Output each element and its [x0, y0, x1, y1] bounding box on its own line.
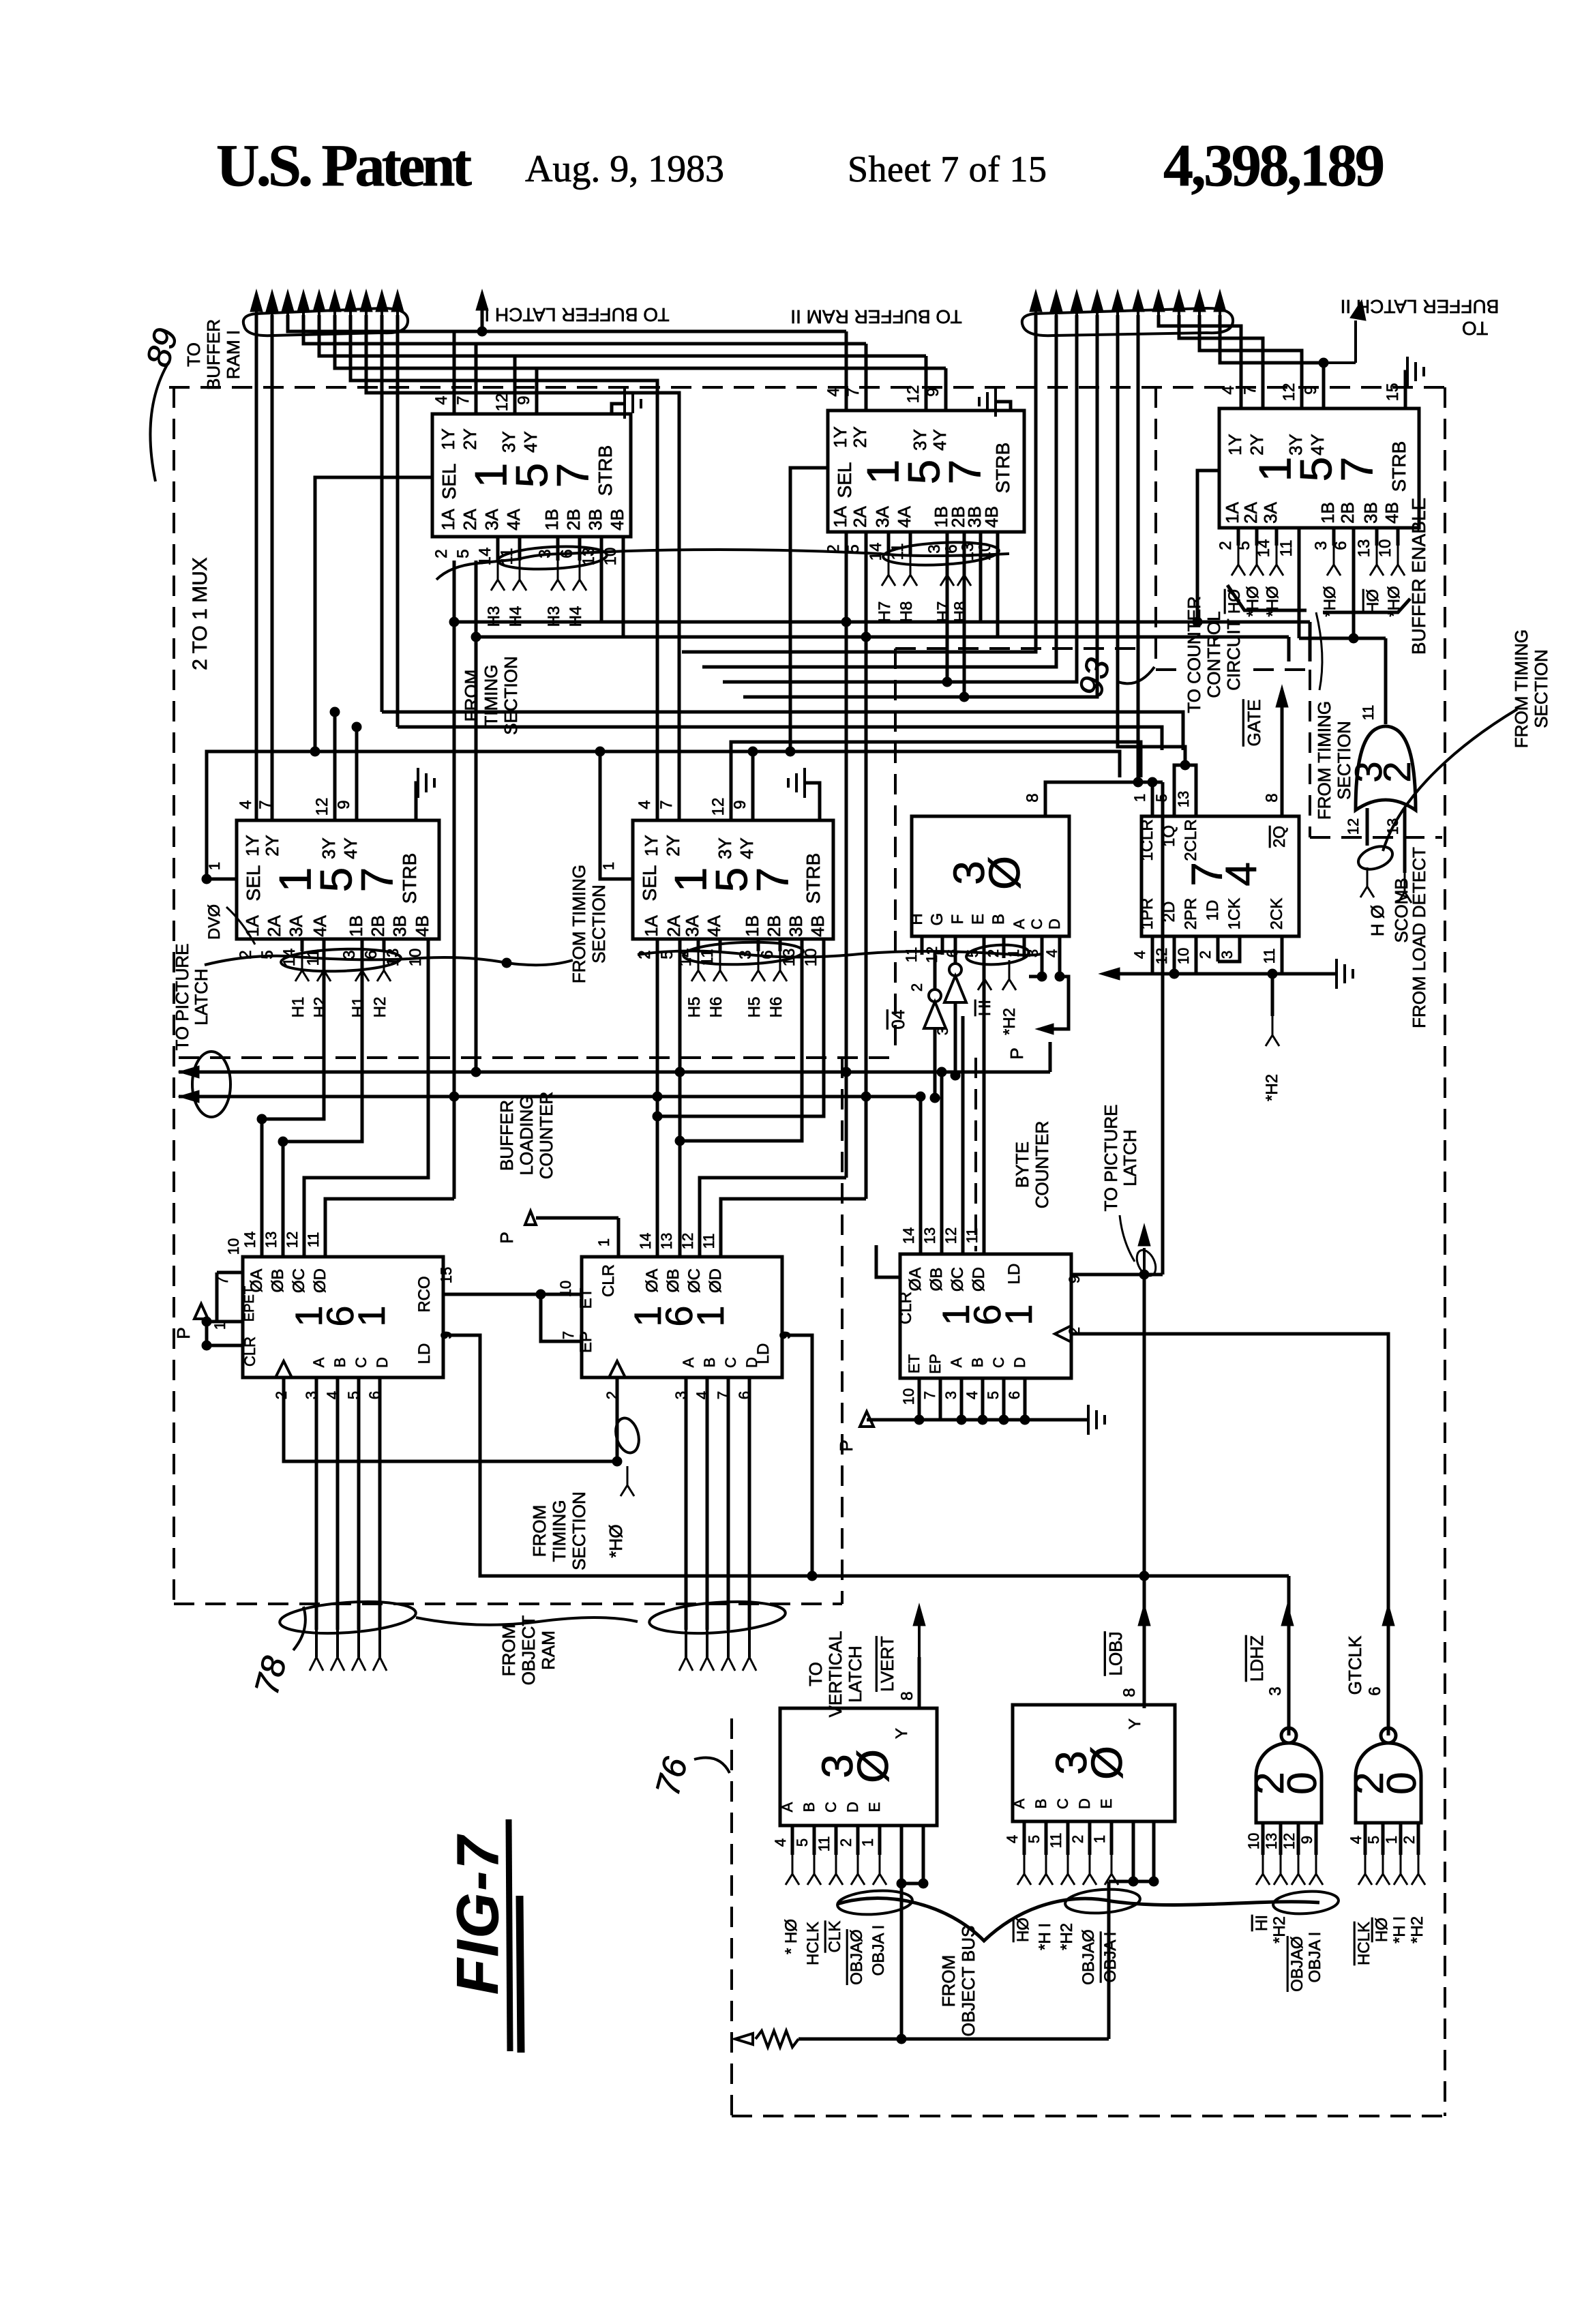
svg-text:EP: EP — [927, 1354, 944, 1373]
svg-text:4A: 4A — [704, 914, 724, 936]
U2 H7/H8 tails — [876, 556, 971, 622]
IC U11 7430 box — [779, 1708, 937, 1826]
svg-text:3: 3 — [1312, 541, 1330, 550]
svg-text:FROM LOAD DETECT: FROM LOAD DETECT — [1409, 847, 1429, 1028]
dot inv2 — [951, 1071, 960, 1080]
HI H2 tails 30a — [976, 960, 1019, 1035]
svg-text:1B: 1B — [541, 509, 562, 531]
arrow left y1428 — [1099, 968, 1120, 980]
U3 bracket leader — [1316, 612, 1322, 690]
svg-text:9: 9 — [515, 396, 533, 404]
wire U10 OC up (30a E) — [961, 1016, 965, 1254]
wire U4 3Y riser — [333, 712, 337, 820]
svg-text:04: 04 — [888, 1010, 908, 1030]
svg-text:VERTICAL: VERTICAL — [825, 1631, 846, 1718]
svg-text:2: 2 — [1401, 1836, 1418, 1844]
ground g7 (U10 bottom net) — [1088, 1405, 1105, 1435]
svg-text:12: 12 — [904, 385, 923, 404]
svg-text:4B: 4B — [412, 915, 432, 937]
svg-text:1CLR: 1CLR — [1138, 819, 1156, 861]
svg-text:3: 3 — [934, 1027, 951, 1035]
svg-text:4: 4 — [1219, 385, 1238, 394]
U11 extra stubs — [897, 1826, 928, 2039]
svg-text:*H2: *H2 — [1000, 1008, 1019, 1035]
svg-text:A: A — [1011, 919, 1028, 929]
svg-text:E: E — [1098, 1799, 1115, 1809]
svg-text:4A: 4A — [503, 508, 524, 530]
wire U1 4Y riser — [535, 368, 539, 414]
svg-text:Y: Y — [893, 1728, 911, 1739]
svg-text:ET: ET — [577, 1287, 595, 1309]
svg-text:1PR: 1PR — [1138, 898, 1156, 930]
svg-text:LD: LD — [1005, 1264, 1024, 1285]
svg-text:H8: H8 — [897, 601, 916, 623]
svg-text:CONTROL: CONTROL — [1204, 611, 1224, 698]
header: sheet — [848, 149, 1047, 190]
svg-text:BUFFER: BUFFER — [496, 1100, 517, 1171]
svg-text:A: A — [779, 1802, 796, 1812]
U9 P input bracket — [496, 1211, 618, 1257]
IC U3 74157 box — [1219, 408, 1419, 528]
svg-text:3B: 3B — [389, 915, 410, 937]
svg-text:U.S. Patent: U.S. Patent — [216, 133, 472, 199]
svg-text:GATE: GATE — [1244, 700, 1264, 747]
svg-text:ØB: ØB — [269, 1269, 287, 1293]
svg-text:OBJECT: OBJECT — [518, 1615, 539, 1686]
label 76 — [648, 1753, 730, 1800]
label 93 — [1071, 654, 1154, 700]
wire U5 4Y riser — [751, 751, 755, 820]
svg-text:FIG-7: FIG-7 — [445, 1834, 511, 1995]
svg-text:9: 9 — [1066, 1275, 1083, 1283]
svg-text:1CK: 1CK — [1225, 898, 1244, 930]
svg-text:1: 1 — [1131, 794, 1148, 802]
svg-text:14: 14 — [900, 1227, 917, 1244]
svg-text:B: B — [701, 1358, 718, 1368]
svg-text:STRB: STRB — [1388, 441, 1409, 492]
svg-text:3A: 3A — [682, 914, 702, 936]
label TO COUNTER CONTROL CIRCUIT — [1184, 596, 1244, 713]
svg-text:1: 1 — [689, 1305, 732, 1326]
svg-text:H7: H7 — [876, 601, 894, 623]
svg-text:2B: 2B — [764, 915, 784, 937]
dot r6 join — [1133, 777, 1143, 787]
svg-text:4: 4 — [1347, 1836, 1364, 1844]
svg-text:5: 5 — [985, 1391, 1002, 1399]
wire LD riser x1705 — [1161, 782, 1165, 1275]
svg-text:2CK: 2CK — [1268, 898, 1286, 930]
dot U4 4Y — [352, 722, 361, 732]
P arrow U10 — [836, 1412, 874, 1452]
U4 bottom pin numbers — [237, 949, 425, 967]
svg-text:4: 4 — [1004, 1835, 1021, 1843]
svg-text:11: 11 — [305, 1232, 322, 1248]
svg-text:2: 2 — [908, 983, 925, 992]
inverter pair 04 — [888, 964, 966, 1035]
svg-text:1Y: 1Y — [242, 835, 263, 856]
svg-text:1D: 1D — [1204, 900, 1222, 921]
svg-text:2: 2 — [1197, 951, 1214, 959]
svg-text:3A: 3A — [872, 505, 893, 527]
svg-text:7: 7 — [1241, 385, 1259, 394]
svg-text:1: 1 — [1091, 1835, 1108, 1843]
svg-text:12: 12 — [493, 393, 511, 412]
svg-text:2Y: 2Y — [1247, 434, 1267, 456]
svg-text:12: 12 — [313, 798, 331, 816]
IC U9 74161 box — [577, 1257, 782, 1377]
svg-text:12: 12 — [1345, 818, 1362, 835]
svg-text:2 TO 1 MUX: 2 TO 1 MUX — [189, 557, 211, 670]
svg-text:H7: H7 — [934, 601, 953, 623]
svg-text:8: 8 — [1120, 1688, 1139, 1697]
svg-text:7: 7 — [351, 867, 402, 893]
object ram tails U8 — [310, 1630, 387, 1671]
dashed box 89 left edge — [173, 387, 175, 1604]
svg-text:2: 2 — [837, 1838, 854, 1847]
svg-text:2A: 2A — [460, 508, 480, 530]
svg-text:E: E — [866, 1802, 883, 1813]
wire r8 (U3 2Y) — [1179, 315, 1263, 408]
svg-text:*H2: *H2 — [1058, 1923, 1076, 1950]
svg-text:3Y: 3Y — [910, 429, 930, 451]
OR gate pin13 lead — [1398, 808, 1412, 903]
dashed vert x1695 (93 jog) — [1154, 387, 1157, 665]
svg-text:Ø: Ø — [848, 1749, 897, 1783]
svg-text:* HØ: * HØ — [782, 1919, 801, 1954]
svg-text:B: B — [1032, 1799, 1049, 1809]
pin label U4 SEL 1 — [206, 862, 223, 870]
wire L4 — [335, 315, 946, 368]
svg-text:3Y: 3Y — [498, 431, 519, 453]
wire r9 (U3 3Y) — [1199, 315, 1302, 408]
label TO BUFFER LATCH I — [484, 304, 669, 325]
svg-text:COUNTER: COUNTER — [1032, 1121, 1052, 1209]
svg-text:2Y: 2Y — [460, 428, 480, 450]
IC U2 74157 box — [828, 411, 1024, 532]
svg-text:OBJECT BUS: OBJECT BUS — [958, 1926, 979, 2037]
svg-text:2B: 2B — [563, 509, 584, 531]
svg-text:9: 9 — [1302, 385, 1320, 394]
svg-text:ØA: ØA — [906, 1268, 925, 1292]
svg-text:B: B — [969, 1358, 986, 1368]
U2 top pin numbers — [824, 385, 942, 404]
U1 bottom pin numbers — [432, 548, 620, 566]
svg-text:1: 1 — [350, 1305, 393, 1326]
U5 bottom pin stubs — [698, 939, 780, 951]
svg-text:13: 13 — [921, 1227, 938, 1244]
svg-text:RCO: RCO — [415, 1276, 434, 1312]
U8 LD wire — [443, 1335, 1289, 1576]
svg-text:E: E — [969, 914, 987, 925]
label FROM TIMING SECTION (outside) — [1511, 629, 1551, 748]
U13 input tails — [1256, 1855, 1323, 1885]
dot U4 SEL — [202, 874, 211, 884]
U3 bottom pin numbers — [1217, 539, 1394, 558]
svg-text:*HØ: *HØ — [1264, 586, 1282, 616]
svg-text:2Q: 2Q — [1270, 826, 1289, 848]
wire U1 SEL feed — [315, 477, 432, 751]
wire U2 1A down — [841, 532, 851, 1178]
svg-text:8: 8 — [1263, 793, 1281, 802]
IC U12 7430 box — [1011, 1705, 1175, 1821]
U3 bracket A — [1227, 585, 1307, 610]
svg-text:CIRCUIT: CIRCUIT — [1223, 619, 1244, 691]
svg-text:FROM: FROM — [529, 1505, 550, 1558]
U8 clock triangle — [275, 1361, 292, 1377]
U9 clock triangle — [609, 1361, 625, 1377]
wire L2 — [303, 315, 866, 344]
U4 H tails — [289, 951, 391, 1017]
svg-text:1A: 1A — [830, 505, 850, 527]
svg-text:ØB: ØB — [664, 1269, 683, 1293]
U5 top pin numbers — [636, 798, 749, 816]
svg-text:C: C — [722, 1357, 739, 1368]
label BUFFER ENABLE — [1408, 498, 1429, 655]
label TO BUFFER RAM I — [183, 319, 243, 390]
wire L5 (U5 1Y) — [350, 315, 657, 820]
svg-text:4B: 4B — [807, 915, 828, 937]
bundle rope U9 — [634, 1598, 786, 1637]
to-buffer-latch-II arrow — [1319, 300, 1366, 368]
svg-text:5: 5 — [794, 1838, 811, 1847]
U11 input labels — [782, 1919, 888, 1985]
svg-text:2PR: 2PR — [1182, 898, 1200, 930]
svg-text:2: 2 — [1069, 1835, 1086, 1843]
svg-text:11: 11 — [964, 1228, 981, 1244]
svg-text:HI: HI — [1253, 1915, 1271, 1931]
svg-text:13: 13 — [1175, 791, 1192, 807]
wire a10 shaft (M8 feed) — [396, 315, 400, 727]
svg-text:3A: 3A — [1260, 501, 1281, 523]
svg-text:B: B — [801, 1802, 818, 1813]
inverter wires — [935, 936, 955, 1098]
U10 pin numbers — [900, 1227, 1083, 1405]
GATE arrow — [1276, 685, 1288, 707]
svg-text:1A: 1A — [438, 508, 458, 530]
wire L1 — [288, 315, 846, 331]
wire M9 (U5 3Y) — [731, 742, 1141, 820]
svg-text:A: A — [310, 1357, 327, 1367]
svg-text:H6: H6 — [767, 997, 786, 1018]
svg-text:1A: 1A — [641, 914, 661, 936]
svg-text:H6: H6 — [707, 997, 726, 1018]
svg-text:H1: H1 — [349, 997, 368, 1018]
svg-text:8: 8 — [1024, 793, 1042, 802]
ground g2 (U2 STRB) — [979, 387, 1011, 417]
dashed 93 right edge — [1309, 670, 1311, 837]
svg-text:4Y: 4Y — [736, 837, 757, 859]
svg-text:3B: 3B — [786, 915, 806, 937]
P arrow mid — [1006, 1024, 1054, 1060]
svg-text:TO: TO — [805, 1662, 826, 1686]
U8 pin numbers — [211, 1232, 455, 1399]
svg-text:7: 7 — [921, 1391, 938, 1399]
svg-text:HØ: HØ — [1373, 1918, 1391, 1942]
dashed box 93 top edge — [895, 647, 1141, 650]
svg-text:CLK: CLK — [826, 1921, 844, 1953]
svg-text:3: 3 — [925, 544, 944, 553]
dots U6 CD — [1037, 972, 1064, 981]
wire U7 5-13 bracket — [1174, 765, 1196, 816]
svg-text:TO PICTURE: TO PICTURE — [172, 944, 192, 1051]
svg-text:2A: 2A — [264, 914, 284, 936]
U11 input tails — [786, 1855, 886, 1885]
stair OC2 — [700, 1178, 846, 1257]
svg-text:1Y: 1Y — [830, 426, 850, 448]
svg-text:SEL: SEL — [834, 462, 855, 498]
label SCOMB — [1391, 878, 1412, 942]
svg-text:TO: TO — [1462, 318, 1488, 339]
svg-text:OBJAØ: OBJAØ — [1288, 1936, 1307, 1991]
dashed box 93 left edge — [894, 649, 897, 1056]
svg-text:4: 4 — [964, 1391, 981, 1399]
svg-text:4: 4 — [1131, 951, 1148, 959]
wire U2 3Y riser — [925, 356, 928, 411]
label GATE — [1244, 700, 1264, 747]
svg-text:H4: H4 — [567, 606, 585, 627]
svg-text:2: 2 — [1375, 761, 1418, 782]
svg-text:SEL: SEL — [243, 865, 264, 902]
ground g1 (U1 STRB) — [612, 389, 641, 419]
dashed box 78 bottom edge — [174, 1603, 842, 1605]
ground g5 (U5 STRB) — [788, 768, 820, 820]
svg-text:C: C — [353, 1357, 370, 1368]
U3 H0 tails — [1225, 546, 1405, 617]
IC U6 7430 box — [908, 816, 1069, 936]
svg-text:7: 7 — [747, 867, 797, 893]
svg-text:15: 15 — [1384, 383, 1402, 402]
svg-text:LATCH: LATCH — [1120, 1129, 1140, 1186]
svg-text:6: 6 — [1006, 1391, 1023, 1399]
svg-text:Y: Y — [1126, 1718, 1144, 1729]
U14 pin numbers — [1347, 1686, 1418, 1844]
svg-text:1B: 1B — [1317, 502, 1338, 524]
dashed 93 bottom-right segment — [1310, 836, 1442, 839]
svg-text:D: D — [743, 1357, 760, 1368]
svg-text:11: 11 — [1047, 1833, 1064, 1849]
label 78 — [247, 1607, 305, 1699]
svg-text:BUFFER: BUFFER — [203, 319, 224, 390]
U11 bottom pin stubs — [792, 1826, 880, 1855]
dot U7 bracket — [1180, 760, 1190, 770]
svg-text:B: B — [331, 1358, 348, 1368]
wire U3 SEL feed — [1197, 471, 1219, 622]
svg-text:7: 7 — [939, 460, 989, 485]
label FROM TIMING SECTION (mid) — [569, 865, 609, 983]
wire U1 2A down — [471, 561, 481, 1077]
svg-text:RAM I: RAM I — [223, 330, 243, 379]
svg-text:LOBJ: LOBJ — [1105, 1631, 1126, 1675]
svg-text:CLR: CLR — [599, 1264, 618, 1297]
wire U5 1A down — [656, 939, 659, 1116]
wire M1 (U1 1A / U2 group) — [449, 561, 1310, 661]
svg-text:7: 7 — [657, 800, 676, 809]
svg-text:1: 1 — [206, 862, 223, 870]
svg-text:13: 13 — [658, 1233, 675, 1249]
picture latch line 1 — [179, 1071, 1050, 1074]
svg-text:Ø: Ø — [980, 856, 1029, 890]
svg-text:1: 1 — [859, 1838, 876, 1847]
svg-text:4: 4 — [1217, 862, 1266, 887]
svg-text:H3: H3 — [485, 606, 503, 627]
svg-text:2A: 2A — [850, 505, 870, 527]
wire U2 3B u-turn — [979, 532, 983, 622]
U10 CLR bracket — [876, 1245, 900, 1277]
svg-text:H2: H2 — [371, 997, 389, 1018]
DVO label — [205, 904, 255, 944]
svg-text:*H I: *H I — [1390, 1916, 1409, 1943]
dashed box 76 left edge — [730, 1718, 733, 2116]
wire r4 — [743, 315, 1097, 697]
U10 bottom net — [867, 1378, 1088, 1425]
svg-text:A: A — [680, 1357, 697, 1367]
svg-text:3Y: 3Y — [318, 837, 339, 859]
dot U5 SEL — [595, 747, 605, 756]
svg-text:HØ: HØ — [1014, 1918, 1032, 1942]
svg-text:ØA: ØA — [643, 1269, 661, 1293]
svg-text:4B: 4B — [1382, 502, 1402, 524]
U1 H3/H4 tails — [485, 561, 586, 627]
wire r7 (U3 1Y) — [1159, 315, 1241, 408]
svg-text:2: 2 — [432, 549, 451, 558]
dot U5 2A — [675, 1067, 685, 1146]
wire U2 2Y riser — [865, 344, 868, 411]
svg-text:SECTION: SECTION — [501, 656, 521, 735]
H2 tail under U7 — [1263, 974, 1281, 1101]
wire bracket P right end — [1049, 1042, 1052, 1072]
dashed right edge (89/76) — [1444, 387, 1446, 2116]
svg-text:P: P — [496, 1232, 517, 1243]
svg-text:12: 12 — [709, 798, 728, 816]
label BYTE COUNTER — [1012, 1121, 1052, 1209]
svg-text:ØD: ØD — [970, 1267, 988, 1292]
svg-text:A: A — [948, 1357, 965, 1367]
svg-text:7: 7 — [454, 396, 473, 404]
svg-text:1: 1 — [595, 1238, 612, 1247]
svg-text:4: 4 — [772, 1838, 789, 1847]
svg-text:FROM: FROM — [938, 1955, 959, 2008]
FIG-7 mark — [445, 1819, 521, 2053]
IC U8 74161 box — [241, 1257, 443, 1377]
svg-text:OBJAØ: OBJAØ — [848, 1929, 866, 1984]
svg-text:P: P — [173, 1327, 194, 1339]
U8 P input — [173, 1272, 243, 1350]
U14 input labels — [1355, 1916, 1427, 1965]
stair OA2 — [657, 939, 824, 1257]
wire U7 pin8 gate — [1281, 706, 1284, 816]
header: date — [525, 148, 724, 190]
dot U5 1A — [653, 1092, 662, 1121]
svg-text:FROM TIMING: FROM TIMING — [1511, 629, 1532, 748]
U7 top pin numbers — [1131, 791, 1281, 807]
U5 bottom pin numbers — [636, 949, 820, 967]
GTCLK arrow — [1345, 1604, 1394, 1695]
svg-text:12: 12 — [284, 1232, 301, 1248]
svg-text:TO COUNTER: TO COUNTER — [1184, 596, 1204, 713]
svg-text:2B: 2B — [368, 915, 388, 937]
dot U4 3Y — [330, 707, 340, 717]
U6 C D to dots — [1042, 936, 1060, 977]
wire U10 OB up — [937, 1067, 946, 1254]
U1 bottom pin stubs — [498, 537, 580, 561]
U13 pin numbers — [1245, 1686, 1315, 1849]
svg-text:2B: 2B — [1337, 502, 1358, 524]
wire r2 — [702, 315, 1056, 667]
U10 clock wire — [1071, 1334, 1388, 1735]
svg-text:1: 1 — [997, 1304, 1040, 1325]
wire U6 pin8 to U7 pin1 — [1045, 777, 1163, 816]
svg-text:*H2: *H2 — [1270, 1916, 1289, 1943]
